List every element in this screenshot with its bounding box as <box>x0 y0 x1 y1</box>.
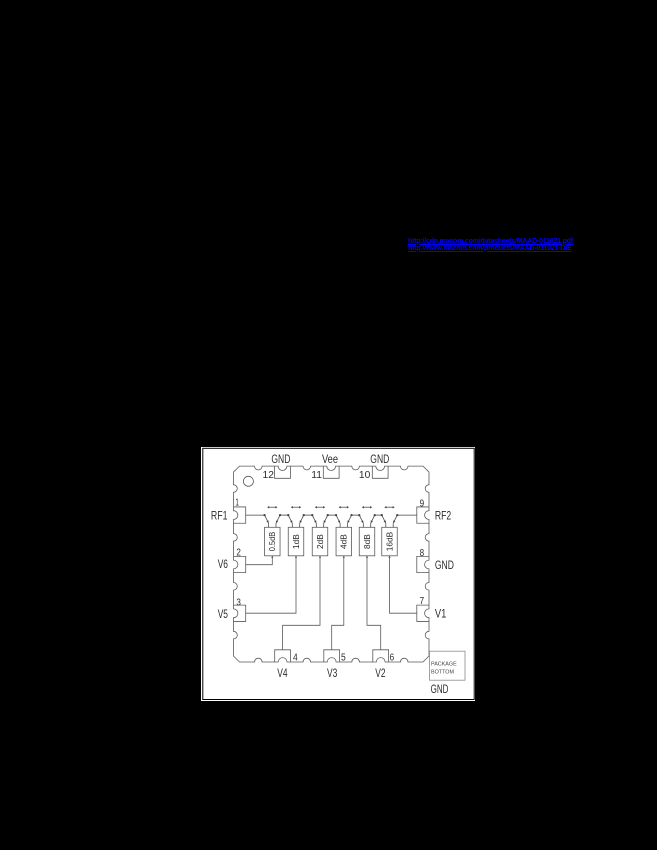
toggle arrow 2 <box>291 506 301 509</box>
package outline <box>234 466 430 662</box>
pin 8 pad <box>417 556 429 572</box>
control arrowhead into 0.5dB <box>271 556 273 558</box>
hyperlink text <box>408 238 574 252</box>
svg-text:11: 11 <box>311 470 322 481</box>
svg-text:Vee: Vee <box>322 454 338 466</box>
svg-text:8: 8 <box>420 548 425 559</box>
wire bypass node 2-3 <box>304 514 313 516</box>
wire bypass node 1-2 <box>280 514 288 516</box>
switch S1 <box>263 514 281 527</box>
control arrowhead into 8dB <box>366 556 368 558</box>
pin 5 pad <box>324 650 340 662</box>
svg-text:4dB: 4dB <box>339 534 349 549</box>
svg-text:GND: GND <box>370 454 389 466</box>
svg-text:0.5dB: 0.5dB <box>267 531 277 551</box>
wire 16dB to V1 <box>390 556 417 613</box>
pin 2 pad <box>234 556 246 572</box>
pin 9 pad <box>417 507 429 523</box>
toggle arrow 6 <box>384 506 394 509</box>
svg-text:9: 9 <box>420 498 425 509</box>
pin 10 pad <box>372 466 388 478</box>
svg-text:RF2: RF2 <box>435 511 451 523</box>
svg-text:7: 7 <box>420 596 425 607</box>
svg-text:6: 6 <box>389 653 394 664</box>
svg-text:16dB: 16dB <box>384 531 394 551</box>
wire 4dB to V3 <box>332 556 344 650</box>
control arrowhead into 4dB <box>343 556 345 558</box>
toggle arrow 4 <box>339 506 349 509</box>
toggle arrow 5 <box>362 506 372 509</box>
pin 4 pad <box>275 650 291 662</box>
svg-text:V2: V2 <box>375 668 385 680</box>
control arrowhead into 16dB <box>388 556 390 558</box>
switch S6 <box>381 514 399 527</box>
wire 2dB to V4 <box>283 556 320 650</box>
pin 6 pad <box>373 650 389 662</box>
svg-text:4: 4 <box>293 653 298 664</box>
svg-text:2: 2 <box>236 547 241 558</box>
attenuator block 8dB <box>359 527 375 556</box>
figure panel <box>201 447 475 701</box>
pin 3 pad <box>234 605 246 621</box>
svg-text:10: 10 <box>359 470 371 481</box>
svg-text:8dB: 8dB <box>362 534 372 549</box>
switch S2 <box>287 514 305 527</box>
svg-text:GND: GND <box>435 560 454 572</box>
svg-text:V5: V5 <box>218 609 228 621</box>
svg-text:GND: GND <box>431 682 449 696</box>
wire switch 6 to RF2 <box>397 514 417 516</box>
svg-text:V1: V1 <box>435 609 447 621</box>
svg-text:5: 5 <box>341 653 346 664</box>
wire RF1 to switch 1 <box>246 514 265 516</box>
svg-text:1dB: 1dB <box>291 534 301 549</box>
svg-text:1: 1 <box>235 497 239 508</box>
pin 11 pad <box>323 466 339 478</box>
control arrowhead into 1dB <box>295 556 297 558</box>
svg-text:V4: V4 <box>277 668 288 680</box>
wire 1dB to V5 <box>246 556 296 613</box>
pin 1 indicator circle <box>243 476 253 486</box>
wire 8dB to V2 <box>367 556 381 650</box>
wire 0.5dB to V6 <box>246 556 273 565</box>
switch S4 <box>335 514 353 527</box>
attenuator block 1dB <box>288 527 304 556</box>
figure border <box>203 448 474 699</box>
pin 7 pad <box>417 605 429 621</box>
pin 12 pad <box>275 466 291 478</box>
svg-text:V3: V3 <box>327 668 337 680</box>
pin 1 pad <box>234 507 246 523</box>
svg-text:RF1: RF1 <box>211 511 228 523</box>
svg-text:2dB: 2dB <box>315 534 325 549</box>
switch S3 <box>311 514 329 527</box>
svg-text:12: 12 <box>263 470 275 481</box>
svg-text:V6: V6 <box>218 559 228 571</box>
control arrowhead into 2dB <box>319 556 321 558</box>
svg-text:BOTTOM: BOTTOM <box>431 669 454 675</box>
wire bypass node 4-5 <box>352 514 360 516</box>
svg-text:GND: GND <box>271 454 290 466</box>
package bottom pad box <box>430 651 466 680</box>
svg-text:PACKAGE: PACKAGE <box>431 662 457 668</box>
toggle arrow 3 <box>315 506 325 509</box>
svg-text:3: 3 <box>236 597 241 608</box>
toggle arrow 1 <box>267 506 277 509</box>
switch S5 <box>358 514 376 527</box>
attenuator block 16dB <box>382 527 398 556</box>
wire bypass node 5-6 <box>375 514 382 516</box>
attenuator block 0.5dB <box>265 527 281 556</box>
wire bypass node 3-4 <box>328 514 336 516</box>
attenuator block 4dB <box>336 527 352 556</box>
attenuator block 2dB <box>312 527 328 556</box>
